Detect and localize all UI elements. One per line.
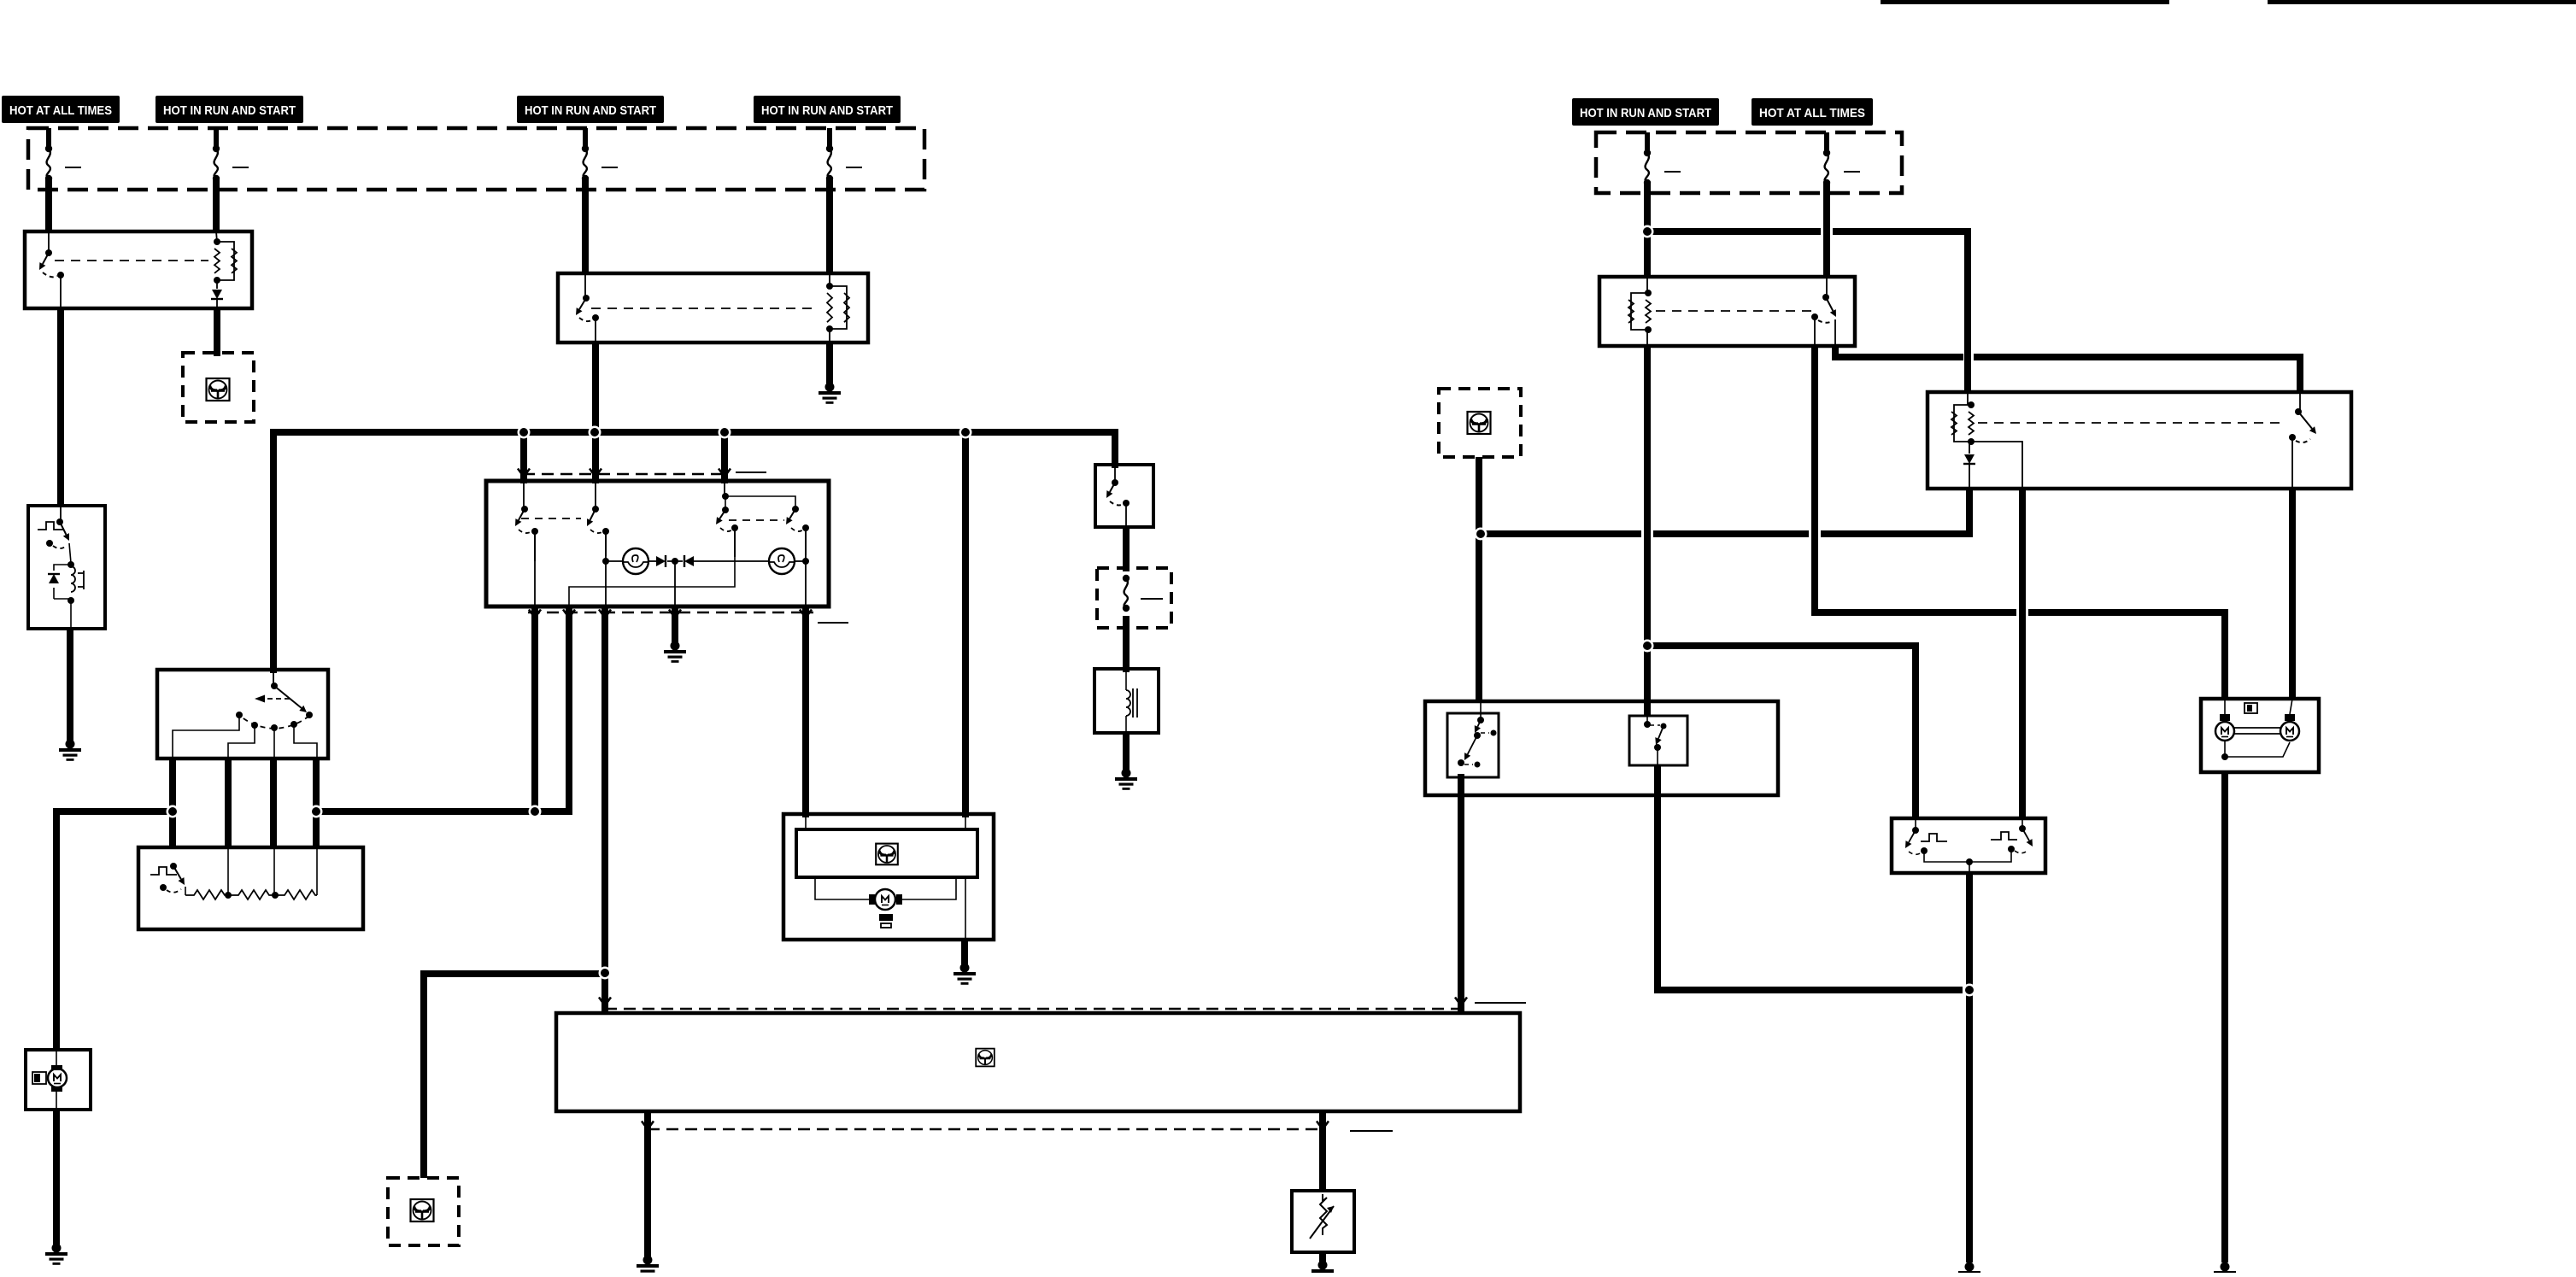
fuse F6 [1824, 132, 1829, 153]
fuse block left (dashed box) [28, 128, 924, 190]
fuse F3 value tick [601, 167, 618, 168]
in-line fuse value tick [1141, 598, 1163, 600]
headlight motor icon [2244, 703, 2257, 713]
fuse F6 value tick [1844, 171, 1860, 173]
bus wire right drop into interval governor [1112, 429, 1118, 468]
power label HOT AT ALL TIMES (right) [1752, 98, 1873, 126]
indicator lamp right [769, 548, 795, 574]
wire motor feed drop [2221, 609, 2228, 699]
ground at turn-hazard switch [664, 641, 686, 663]
in-line fuse holder (dashed box) [1097, 568, 1171, 628]
fuse F2 value tick [232, 167, 249, 168]
relay K3 coil [1646, 277, 1648, 293]
hazard switch pole 2 [587, 483, 609, 606]
wiper mist switch sub-box [1629, 716, 1687, 765]
relay K4 dashed actuator link [1978, 422, 2283, 424]
instrument cluster box [556, 1013, 1520, 1111]
interval unit coil [1126, 669, 1137, 733]
wire park switch to ground [1966, 873, 1973, 1262]
turn-hazard output dashed bus [528, 612, 813, 613]
fuel gauge sender rheostat [1310, 1194, 1334, 1239]
turn output ground pin wire [672, 606, 678, 642]
junction node on bus at relay K2 output [0, 0, 1, 1]
bus wire (hot feed) horizontal [270, 429, 1118, 436]
relay K4 diode [1969, 442, 1970, 454]
junction node bus-right at turn pin1 [0, 0, 1, 1]
column switch tap wires [173, 717, 317, 759]
fuse F5 [1645, 132, 1650, 153]
ground at park switch wire [1958, 1262, 1980, 1277]
wire relay K3 NO out [1835, 346, 1963, 357]
indicator lamp left [606, 560, 623, 562]
ground at interval unit [1115, 769, 1137, 790]
resistor R1 [185, 890, 228, 899]
power label HOT IN RUN AND START (center) [754, 96, 901, 123]
wire washer motor to ground [53, 1110, 60, 1245]
wire stoplight switch to ground [67, 629, 73, 741]
junction node at park switch output [0, 0, 1, 1]
bus wire right segment [316, 808, 569, 815]
relay K2 dashed actuator link [591, 308, 819, 309]
connector C3 (dashed box with steering column icon) [388, 1178, 459, 1245]
fuse F1 [46, 128, 51, 149]
relay K1 dashed actuator link [55, 260, 208, 261]
svg-text:HOT IN RUN AND START: HOT IN RUN AND START [1580, 106, 1711, 120]
wiper park switch icon [879, 914, 893, 928]
relay K2 box [558, 273, 868, 343]
park switch pole left [1905, 818, 1947, 854]
wire relay K2 coil to ground [826, 343, 833, 384]
wire washer connector branch [424, 974, 608, 1178]
relay K4 coil [1967, 392, 1969, 405]
svg-text:HOT IN RUN AND START: HOT IN RUN AND START [761, 103, 893, 118]
ground at fuel sender [1311, 1261, 1334, 1277]
washer pump motor box [26, 1050, 91, 1110]
column switch output wires [173, 759, 316, 847]
relay K1 switch [39, 231, 64, 308]
wiper on-off switch [1458, 701, 1497, 768]
wire junction row horizontal [1484, 530, 1973, 537]
interval governor switch box [1095, 465, 1153, 527]
bus wire left drop to column switch [270, 429, 277, 673]
park switch common wire [1924, 852, 2011, 873]
bus wire left segment to washer motor [56, 811, 173, 1050]
wire relay K4 NO to headlight motor [2289, 489, 2296, 699]
wiper module steering icon [876, 844, 898, 865]
turn switch pole 4 [786, 506, 809, 606]
wire bus to wiper motor module [962, 432, 969, 817]
node R2-R3 [272, 892, 279, 899]
turn output pin 2 wire to y950 bus end [566, 606, 572, 815]
power label HOT IN RUN AND START (center-left) [517, 96, 664, 123]
stoplight switch box [28, 506, 105, 629]
resistor box switch [150, 863, 185, 895]
stoplight switch [38, 506, 69, 548]
turn pole3 feed to pole 4 [725, 496, 795, 507]
hazard switch pole 1 [515, 483, 538, 606]
wiper on-off switch sub-box [1447, 713, 1499, 777]
wire sender to ground [1319, 1252, 1326, 1262]
resistor R2 [228, 890, 275, 899]
relay K4 box [1928, 392, 2351, 489]
resistor chain end wire [316, 847, 318, 895]
header rule bar right [2268, 0, 2576, 4]
turn signal / hazard switch box [486, 481, 829, 606]
relay K3 switch [1811, 277, 1836, 346]
instrument cluster steering icon [976, 1049, 995, 1067]
in-line fuse [1123, 575, 1130, 612]
junction node bus-left at column tap 1 [0, 0, 1, 1]
wire relay K3 coil out down [1644, 346, 1651, 716]
wire fuse F5 branch to relay K4 coil [1651, 228, 1821, 235]
junction node fuse F5 branch [0, 0, 1, 1]
fuse F2 [214, 128, 219, 149]
wire turn pin3 junction to cluster [0, 0, 1, 1]
park switch box [1892, 818, 2045, 873]
wire relay K1 switch output to stoplight switch [57, 308, 64, 506]
fuse block right (dashed box) [1596, 132, 1902, 193]
wiper module ground pin wire [965, 877, 966, 940]
wire K3 branch to park sw [1651, 646, 1916, 818]
ground at instrument cluster [637, 1256, 659, 1277]
ground at wiper motor [954, 964, 976, 985]
wire fuse to interval coil unit [1123, 616, 1130, 672]
fuel gauge sender box [1292, 1191, 1354, 1252]
relay K1 diode [216, 280, 218, 289]
park switch pole right [1991, 818, 2033, 853]
wire mist switch out [1658, 765, 1963, 990]
relay K3 dashed actuator link [1656, 310, 1811, 312]
headlight motor link [2234, 728, 2280, 734]
resistor R3 [275, 890, 317, 899]
turn-hazard output tick [818, 622, 848, 624]
interval governor switch [1106, 468, 1130, 527]
wire bus to turn switch pin B (relay K2 out) [592, 432, 599, 483]
junction nodes overlay [518, 426, 531, 439]
svg-text:HOT AT ALL TIMES: HOT AT ALL TIMES [1759, 106, 1865, 120]
turn-hazard connector tick [736, 472, 766, 473]
fuse F3 [583, 128, 588, 149]
wire bus to turn switch pin C [721, 432, 728, 483]
connector C2 (dashed box with steering column icon) [1439, 389, 1521, 457]
junction node K3 coil branch [0, 0, 1, 1]
cluster sender pin wire [1319, 1111, 1326, 1191]
headlight motor right [2280, 699, 2299, 741]
turn output pin 3 wire long drop [601, 606, 608, 1012]
connector C1 (dashed box with steering column icon) [183, 353, 254, 422]
fuse F5 value tick [1664, 171, 1681, 173]
relay K2 switch [576, 273, 599, 343]
relay K1 coil [216, 231, 217, 242]
relay K2 coil [829, 273, 830, 286]
diode D1 [648, 560, 656, 562]
ground at relay K2 [819, 383, 841, 404]
interval unit coil box [1094, 669, 1159, 733]
wire diode node to ground pin [674, 561, 676, 606]
cluster bottom connector dashed bus [648, 1128, 1323, 1130]
cluster top connector dashed bus [605, 1008, 1462, 1010]
turn switch pole 3 [716, 483, 738, 557]
cluster ground pin wire [644, 1111, 651, 1256]
relay K1 box [25, 231, 252, 308]
cluster top connector tick [1475, 1002, 1526, 1004]
wire relay K3 NC to motor horizontal [1815, 346, 2016, 612]
headlight motor bottom wire [2221, 741, 2290, 760]
wire bus to turn switch pin A [520, 432, 527, 483]
wiper mist switch [1644, 716, 1667, 765]
wiper module pin wires [806, 817, 965, 829]
relay K3 box [1599, 277, 1855, 346]
header rule bar left [1881, 0, 2169, 4]
wiper switch assembly box [1425, 701, 1778, 795]
wire governor to in-line fuse [1123, 527, 1130, 571]
column switch box [157, 670, 328, 759]
power label HOT IN RUN AND START (left) [155, 96, 303, 123]
wire connector C2 to wiper switch [1476, 457, 1482, 701]
svg-text:HOT IN RUN AND START: HOT IN RUN AND START [525, 103, 656, 118]
junction node bus-right at column tap 4 [0, 0, 1, 1]
wiper motor module box [783, 814, 994, 940]
junction node on bus at turn switch feed 2 [0, 0, 1, 1]
wire wiper on-off out to cluster bus [1458, 774, 1464, 1012]
power label HOT AT ALL TIMES (left) [2, 96, 120, 123]
svg-text:HOT IN RUN AND START: HOT IN RUN AND START [163, 103, 296, 118]
wire headlight motor to ground [2221, 772, 2228, 1262]
fuse F4 [827, 128, 832, 149]
cluster feed pin wire right [1455, 998, 1467, 1006]
fuse F4 value tick [846, 167, 862, 168]
wire relay K4 diode out to junction row [1966, 489, 1973, 536]
wiper motor [815, 877, 956, 910]
junction node washer connector branch [0, 0, 1, 1]
stoplight switch coil element [48, 543, 84, 629]
wire relay K2 switch output to bus [592, 343, 599, 432]
headlight motor left [2215, 699, 2234, 741]
wiper speed resistor box [138, 847, 363, 929]
headlight door motor box [2201, 699, 2319, 772]
junction node on bus at wiper motor feed [0, 0, 1, 1]
wire interval unit to ground [1123, 733, 1130, 770]
ground at washer motor [45, 1244, 67, 1265]
wire to relay K4 switch [2297, 354, 2303, 392]
turn output pin 1 wire to y950 bus [531, 606, 538, 815]
fuse F1 value tick [65, 167, 81, 168]
turn pole3-4 dashed link [729, 519, 784, 521]
cluster feed pin wire [601, 973, 608, 1010]
junction node on bus at turn switch feed [0, 0, 1, 1]
washer pump motor [32, 1050, 67, 1110]
wiper module inner connector box [796, 829, 977, 877]
hazard pole1-2 dashed link [521, 518, 581, 519]
wire relay K4 coil tap to park switch [2019, 489, 2026, 818]
wire relay K1 coil output to connector [214, 308, 220, 356]
relay K4 coil tap wire [1971, 442, 2022, 489]
node R1-R2 [225, 892, 232, 899]
column rotary switch [236, 673, 313, 731]
relay K4 switch [2289, 392, 2316, 489]
turn-hazard connector dashed bus [523, 473, 728, 475]
diode D2 [684, 555, 694, 567]
turn switch internal route pole3 [569, 557, 735, 606]
ground at headlight motor [2214, 1262, 2236, 1277]
svg-text:HOT AT ALL TIMES: HOT AT ALL TIMES [9, 103, 112, 118]
cluster sender tick [1350, 1130, 1393, 1132]
node between diodes [672, 558, 678, 565]
turn output pin 5 wire to wiper motor [802, 606, 809, 817]
ground at stoplight switch [59, 740, 81, 761]
power label HOT IN RUN AND START (right) [1572, 98, 1719, 126]
